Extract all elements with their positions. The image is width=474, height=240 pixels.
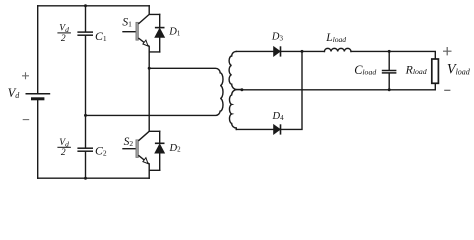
svg-text:D4: D4 [272, 111, 285, 122]
wire D2 branch upper [159, 131, 161, 142]
label Vd/2 fraction lower [57, 138, 71, 158]
transistor S2 (IGBT bar, collector, emitter) [136, 131, 149, 164]
wire L_load to output corner and R_load top stub [351, 51, 435, 59]
wire S2 gate lead [123, 148, 136, 150]
output plus sign [443, 47, 452, 55]
svg-text:Vd: Vd [59, 24, 69, 34]
resistor R_load box [432, 59, 439, 83]
svg-text:C1: C1 [95, 29, 107, 43]
svg-text:D3: D3 [271, 32, 284, 43]
node rectifier output junction [301, 50, 304, 53]
svg-text:Lload: Lload [325, 32, 346, 44]
wire center tap rail to load [242, 89, 435, 91]
battery source Vd [26, 94, 51, 101]
output minus sign [444, 89, 450, 91]
transistor S1 (IGBT bar, collector, emitter) [136, 14, 149, 46]
diode D2 [155, 143, 165, 153]
svg-text:2: 2 [61, 148, 66, 158]
node C_load top junction [388, 50, 391, 53]
node bridge midpoint [148, 67, 151, 70]
node bottom rail / C2 junction [84, 177, 87, 180]
wire capacitor-leg lower (C2 to bottom rail) [85, 152, 87, 178]
svg-text:C2: C2 [95, 143, 107, 157]
transformer secondary upper half [229, 51, 242, 89]
inductor L_load [324, 48, 351, 51]
node top rail / C1 junction [84, 4, 87, 7]
wire capacitor-leg upper (top rail to C1) [85, 6, 87, 32]
svg-text:2: 2 [61, 34, 66, 44]
wire D1 branch upper [159, 14, 161, 27]
svg-text:Vload: Vload [447, 62, 471, 78]
battery plus sign [22, 72, 29, 79]
wire left rail top (battery + side) [37, 6, 39, 93]
svg-text:Vd: Vd [59, 138, 69, 148]
battery minus sign [23, 119, 30, 121]
wire D1 branch lower [159, 37, 161, 52]
label Vd/2 fraction upper [57, 24, 71, 44]
wire S1 gate lead [123, 31, 136, 33]
wire secondary top lead to D3 [236, 50, 273, 52]
wire C_load bottom lead [388, 74, 390, 90]
diode D4 [274, 124, 281, 134]
wire capacitor-leg middle (C1 to C2 through midpoint) [85, 36, 87, 147]
wire R_load bottom stub [434, 83, 436, 90]
wire C_load top lead [388, 51, 390, 69]
wire bottom rail [38, 177, 150, 179]
wire top rail [38, 5, 150, 7]
wire left rail bottom (battery - side) [37, 100, 39, 178]
wire S1 emitter to midpoint and D1 bottom jog [149, 46, 160, 68]
svg-text:S2: S2 [124, 136, 134, 148]
svg-text:Rload: Rload [405, 62, 427, 76]
svg-text:D1: D1 [168, 27, 181, 38]
wire S2 emitter to bottom rail and D2 bottom jog [149, 164, 160, 178]
node transformer center tap [240, 88, 243, 91]
capacitor C2 plates [77, 148, 93, 151]
node capacitor midpoint junction [84, 114, 87, 117]
svg-text:Cload: Cload [354, 63, 376, 77]
wire secondary bottom lead through D4 [236, 128, 273, 130]
svg-text:D2: D2 [169, 143, 182, 154]
capacitor C1 plates [77, 32, 93, 35]
wire S1 collector drop from top rail [149, 6, 160, 15]
wire bridge midpoint to S2 collector [149, 68, 160, 131]
node C_load bottom junction [388, 88, 391, 91]
transformer secondary lower half [229, 90, 241, 130]
wire D4 cathode rising to rectifier node [280, 51, 302, 129]
capacitor C_load plates [382, 71, 397, 73]
wire D3 cathode to rectifier node [280, 50, 324, 52]
transformer primary winding T1 [86, 68, 224, 115]
svg-text:S1: S1 [122, 17, 132, 29]
diode D3 [274, 46, 281, 56]
svg-text:Vd: Vd [8, 86, 21, 100]
diode D1 [155, 28, 165, 38]
wire D2 branch lower [159, 153, 161, 170]
